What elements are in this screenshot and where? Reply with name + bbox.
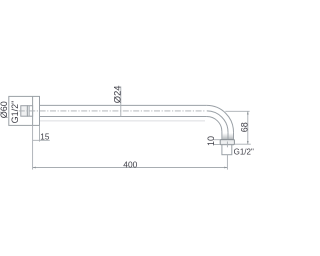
arm tube top line [40,104,207,106]
svg-text:400: 400 [123,159,137,169]
downtube middle line [227,132,229,140]
tube shadow line [40,120,205,122]
bend inner arc [207,117,222,132]
leader line diameter 24 [120,87,122,117]
extension line nut bottom left [214,144,220,146]
dimension line 68 [247,111,249,144]
arm tube bottom line [40,116,207,118]
svg-text:G1/2": G1/2" [10,101,20,124]
arrow 68 top [247,111,249,114]
extension line wall face [32,125,34,169]
extension line arm center [225,110,249,112]
svg-text:Ø24: Ø24 [111,85,122,103]
arrow 68 bottom [247,141,249,144]
extension line nut bottom [234,143,250,145]
dimension line 15 [33,139,50,141]
outlet thread stub G1/2 [222,145,232,155]
svg-text:15: 15 [40,132,50,141]
flange plate divider [32,96,34,125]
thread washer [27,106,32,117]
washer divider [28,106,30,117]
arrow 400 right [224,167,227,169]
extension line outlet [226,155,228,170]
svg-text:G1/2": G1/2" [234,148,254,157]
downtube right line [233,132,235,140]
tube centerline [19,110,206,112]
extension line nut top left [214,139,220,141]
bend outer arc [207,105,234,132]
wall flange body [9,96,40,125]
wall thread connector [21,106,28,117]
svg-text:10: 10 [206,136,216,146]
svg-text:68: 68 [239,122,249,132]
arrow 400 left [33,167,36,169]
bend middle arc [207,111,228,132]
downtube left line [221,132,223,140]
tube shading above nut [222,133,233,140]
svg-text:Ø60: Ø60 [0,101,9,118]
dimension line 400 [33,167,228,169]
extension line flange front [39,125,41,141]
outlet centerline [226,142,228,148]
outlet nut [220,140,234,145]
